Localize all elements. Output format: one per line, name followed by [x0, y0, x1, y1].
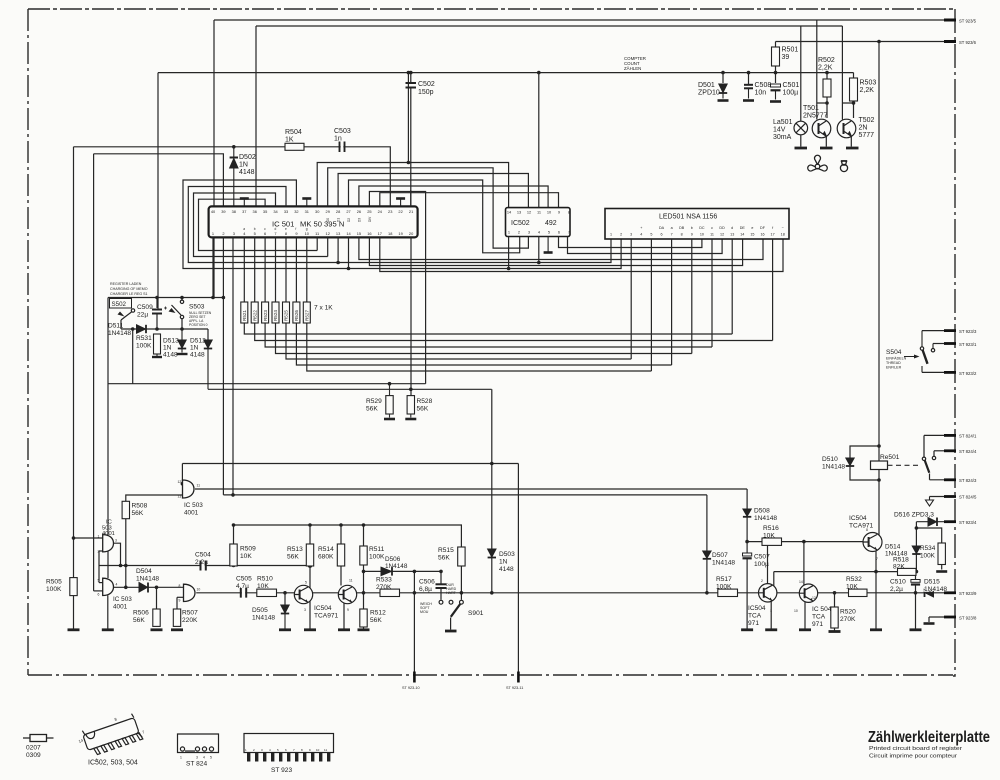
transistor T501 2N5777: [812, 119, 832, 148]
svg-text:31: 31: [305, 209, 309, 214]
svg-text:ST 923: ST 923: [271, 767, 292, 774]
svg-text:D3: D3: [358, 218, 362, 222]
svg-text:10K: 10K: [240, 553, 252, 560]
svg-text:2: 2: [253, 748, 255, 752]
svg-text:4001: 4001: [113, 604, 128, 611]
svg-text:14: 14: [799, 580, 803, 584]
wire ST824-5 line: [930, 496, 949, 498]
resistor R525: [283, 302, 290, 323]
svg-text:ST 923-10: ST 923-10: [402, 686, 420, 690]
connector tick ST923/6: [944, 40, 956, 43]
svg-text:4001: 4001: [102, 531, 115, 537]
node feedback split: [119, 564, 123, 568]
svg-text:6,8µ: 6,8µ: [419, 586, 432, 593]
svg-text:IC 503: IC 503: [113, 596, 132, 603]
wire pin11 stub: [316, 237, 318, 250]
svg-text:D501: D501: [698, 82, 715, 89]
wire LED p5 riser to rbank line7: [650, 239, 652, 371]
node gateA input1: [72, 536, 76, 540]
connector tick ST923-10: [413, 672, 416, 683]
svg-text:D506: D506: [385, 556, 401, 563]
svg-text:HART: HART: [446, 591, 457, 595]
transistor T4 IC504: [863, 533, 882, 552]
svg-text:9: 9: [691, 233, 693, 237]
wire S502 arm lower stub: [120, 320, 122, 329]
wire C507 bottom: [746, 558, 748, 628]
ground T4 drop: [870, 628, 882, 631]
svg-text:5: 5: [305, 581, 307, 585]
connector tick ST923/4: [944, 520, 956, 523]
wire T1 emitter: [309, 601, 311, 629]
node D514 R518: [915, 570, 919, 574]
resistor R511: [360, 546, 367, 565]
svg-text:ST 923/9: ST 923/9: [959, 591, 977, 596]
node x408 bus junction: [407, 71, 411, 75]
wire LED p7 riser to rbank line6: [671, 239, 673, 365]
capacitor C502: [406, 73, 417, 208]
svg-text:R511: R511: [369, 546, 385, 553]
wire loop pin33 to pin13 to IC502 p3: [188, 187, 611, 263]
svg-text:11: 11: [537, 210, 541, 215]
wire pin12 stub: [327, 237, 329, 256]
resistor bank R521-R527 7x1K: [244, 237, 772, 371]
border frame right: [953, 9, 955, 676]
svg-text:f: f: [295, 227, 296, 231]
svg-text:R501: R501: [782, 47, 799, 54]
node S901 main: [460, 591, 464, 595]
svg-text:1N4148: 1N4148: [712, 560, 735, 567]
op-amp IC502 492 box: [506, 208, 571, 237]
svg-text:100µ: 100µ: [754, 561, 769, 568]
svg-text:d: d: [731, 226, 733, 230]
gate IC503 A: [103, 535, 114, 552]
ground S901: [445, 630, 457, 633]
resistor R501: [772, 47, 780, 66]
resistor R534: [938, 543, 945, 565]
svg-text:12: 12: [527, 210, 531, 215]
node D511 line D513: [180, 327, 184, 331]
wire R508 bottom drop: [125, 519, 127, 588]
svg-text:TCA971: TCA971: [849, 523, 874, 530]
svg-text:37: 37: [242, 209, 246, 214]
svg-text:2,2µ: 2,2µ: [195, 559, 208, 566]
wire R525 path: [286, 237, 631, 359]
wire R514 stub: [340, 525, 342, 544]
svg-text:28: 28: [336, 209, 340, 214]
wire loop pin35 to pin11 to IC502 p1: [199, 199, 318, 250]
svg-text:R512: R512: [370, 610, 386, 617]
svg-text:22: 22: [398, 209, 402, 214]
wire IC502 p6 to LED p10: [559, 237, 702, 248]
svg-text:5: 5: [98, 579, 100, 583]
svg-text:e: e: [751, 226, 753, 230]
svg-text:R508: R508: [132, 503, 148, 510]
wire loop pin34 to pin12 to IC502 p2: [194, 193, 328, 257]
wire pin13 stub: [337, 237, 339, 262]
wire D511 line: [121, 328, 208, 330]
diode D513: [177, 329, 188, 354]
label gate pin numbers: [98, 480, 879, 613]
svg-text:5: 5: [210, 756, 212, 760]
wire ST923/5 rail: [214, 19, 948, 21]
wire D511 riser: [132, 329, 134, 384]
diode D510 and relay Re501: [850, 446, 879, 480]
SEC-TOPLINES: [723, 20, 879, 461]
wire R508 top to gateC: [126, 495, 183, 501]
svg-text:10: 10: [700, 233, 704, 237]
svg-text:17: 17: [771, 233, 775, 237]
svg-text:D513: D513: [163, 338, 179, 345]
wire pin2 down long: [222, 237, 224, 495]
svg-text:a: a: [243, 227, 245, 231]
svg-text:IC504: IC504: [849, 515, 867, 522]
svg-text:IC502, 503, 504: IC502, 503, 504: [88, 760, 138, 767]
svg-text:9: 9: [309, 748, 311, 752]
wire pin14 stub: [348, 237, 350, 268]
wire bundle pin29 to IC502 p3: [328, 168, 529, 248]
resistor R532: [849, 589, 868, 596]
svg-text:4148: 4148: [499, 566, 514, 573]
wire D508 to R516 node: [746, 517, 748, 553]
svg-text:2: 2: [761, 579, 763, 583]
wire R527 path: [307, 237, 652, 371]
wire ST824-1 line: [924, 434, 948, 436]
svg-text:2,2K: 2,2K: [860, 87, 875, 94]
svg-text:22µ: 22µ: [137, 312, 148, 319]
svg-text:1: 1: [245, 748, 247, 752]
svg-text:14: 14: [740, 233, 744, 237]
capacitor C510 electrolytic: [911, 580, 920, 585]
svg-text:R516: R516: [763, 525, 779, 532]
svg-text:4: 4: [269, 748, 271, 752]
svg-text:18: 18: [781, 233, 785, 237]
resistor R527: [303, 302, 310, 323]
wire ST824-4 line: [934, 450, 948, 452]
ground R512: [358, 628, 370, 631]
svg-text:6: 6: [285, 748, 287, 752]
svg-text:3: 3: [528, 230, 530, 235]
capacitor C505: [242, 588, 245, 598]
wire D505 drop: [284, 593, 286, 605]
svg-text:C503: C503: [334, 128, 351, 135]
svg-text:25: 25: [367, 209, 371, 214]
svg-text:5: 5: [254, 231, 256, 236]
svg-text:270K: 270K: [376, 584, 392, 591]
wire main line y593: [196, 592, 759, 594]
node rail2 relay junction: [877, 40, 881, 44]
zener D501 ZPD10: [718, 84, 729, 101]
svg-text:R525: R525: [284, 310, 289, 321]
wire R521 path: [244, 237, 732, 334]
ground T1: [304, 628, 316, 631]
wire R503 bottom jog: [842, 101, 853, 118]
resistor R515: [458, 547, 465, 566]
node pin14 junction: [347, 267, 351, 271]
svg-text:100K: 100K: [920, 553, 936, 560]
wire rail y525: [234, 525, 462, 547]
wire R516 line: [747, 541, 863, 543]
svg-text:D1: D1: [337, 218, 341, 222]
ground T5: [765, 628, 777, 631]
svg-text:DC: DC: [699, 226, 705, 230]
svg-text:11: 11: [197, 484, 201, 488]
svg-text:R515: R515: [438, 547, 454, 554]
resistor R526: [293, 302, 300, 323]
node R514 rail: [339, 523, 343, 527]
wire R501 to bus: [775, 66, 777, 83]
resistor R517: [718, 589, 738, 596]
svg-text:10n: 10n: [755, 90, 767, 97]
svg-text:33: 33: [284, 209, 288, 214]
svg-text:26: 26: [357, 209, 361, 214]
icon small bulb: [840, 161, 847, 172]
svg-text:S901: S901: [468, 610, 484, 617]
capacitor C507 electrolytic: [743, 553, 752, 558]
svg-text:32: 32: [294, 209, 298, 214]
wire gateA input2 tap: [99, 550, 103, 552]
wire T4 emitter: [875, 551, 877, 571]
wire R524 path: [276, 237, 692, 353]
capacitor C504: [202, 561, 205, 571]
node R534 bracket: [915, 526, 919, 530]
resistor R504: [285, 143, 304, 150]
svg-text:100K: 100K: [716, 584, 732, 591]
svg-text:56K: 56K: [438, 555, 450, 562]
svg-text:TCA971: TCA971: [314, 613, 339, 620]
svg-text:56K: 56K: [370, 617, 382, 624]
wire bundle pin27 to IC502 p2: [349, 180, 520, 253]
wire C509 stub: [156, 298, 158, 309]
svg-text:1: 1: [212, 231, 214, 236]
wire IC502 p1 stub: [508, 237, 510, 269]
wire R534 bracket: [916, 528, 941, 570]
wire C510 ground drop: [915, 593, 917, 629]
switch S502: [110, 299, 132, 309]
node D503 y463: [490, 462, 494, 466]
svg-text:1N4148: 1N4148: [385, 563, 408, 570]
node pin13 junction: [336, 261, 340, 265]
svg-text:0207: 0207: [26, 745, 41, 752]
node D507 main: [705, 591, 709, 595]
wire D506 line: [364, 570, 442, 572]
wire ST824-3 line: [930, 479, 949, 481]
wire loop pin32 to pin14 to IC502 p4: [183, 180, 621, 269]
ground stub pin31: [302, 199, 311, 207]
svg-text:R502: R502: [818, 57, 835, 64]
svg-text:R505: R505: [46, 579, 62, 586]
ground D505: [279, 628, 291, 631]
svg-text:C507: C507: [754, 554, 770, 561]
svg-text:R507: R507: [182, 610, 198, 617]
wire x72 down to R505: [73, 147, 75, 578]
svg-text:100K: 100K: [46, 586, 62, 593]
svg-text:4,7µ: 4,7µ: [236, 583, 249, 590]
svg-text:ST 923/2: ST 923/2: [959, 371, 977, 376]
connector tick ST824/4: [944, 449, 956, 452]
connector tick ST824/5: [944, 495, 956, 498]
wire R513 stub: [309, 525, 311, 544]
ground R507: [171, 628, 183, 631]
resistor R520: [831, 607, 838, 628]
resistor R524: [272, 302, 279, 323]
svg-text:DIV: DIV: [368, 216, 372, 222]
diode D504: [139, 583, 148, 593]
svg-text:b: b: [691, 226, 693, 230]
svg-text:D502: D502: [239, 154, 256, 161]
diode D508: [743, 509, 751, 517]
svg-text:DD: DD: [719, 226, 725, 230]
svg-text:15: 15: [750, 233, 754, 237]
svg-text:1N: 1N: [163, 345, 172, 352]
node R513 rail: [308, 523, 312, 527]
resistor R508: [122, 501, 129, 518]
svg-text:R524: R524: [273, 310, 278, 321]
wire pin20 down to R528: [410, 237, 412, 395]
wire C509 to line: [156, 315, 158, 330]
svg-text:13: 13: [178, 495, 182, 499]
svg-text:30mA: 30mA: [773, 134, 792, 141]
gate IC503 B: [103, 578, 114, 595]
switch S504: [904, 331, 935, 373]
node R502 bottom: [825, 101, 829, 105]
svg-text:150p: 150p: [418, 89, 434, 96]
ground R534: [936, 570, 947, 573]
svg-text:D515: D515: [924, 579, 940, 586]
wire R509 vertical: [233, 525, 235, 544]
diode D511: [137, 325, 147, 333]
switch S503: [169, 298, 184, 330]
svg-text:R504: R504: [285, 129, 302, 136]
wire IC502 p4 stub: [538, 237, 540, 263]
IC package drawing IC502 503 504: [75, 709, 149, 765]
wire ST923-2 line: [922, 371, 948, 373]
wire line y495: [223, 494, 707, 496]
wire R528 line: [208, 388, 492, 390]
diode D506: [381, 567, 392, 575]
svg-text:Re501: Re501: [880, 454, 900, 461]
svg-text:6: 6: [264, 231, 266, 236]
svg-text:100K: 100K: [369, 554, 385, 561]
svg-text:10: 10: [197, 588, 201, 592]
wire bundle pin24 to IC502 p9: [380, 193, 559, 208]
svg-text:THREAD: THREAD: [886, 361, 901, 365]
svg-text:EINFÄDELN: EINFÄDELN: [886, 357, 907, 361]
node IC502 p1 junction: [507, 267, 511, 271]
node R501 C501 bus: [774, 71, 778, 75]
svg-text:1: 1: [508, 230, 510, 235]
ground C510: [910, 628, 922, 631]
svg-text:ST 923/1: ST 923/1: [959, 342, 977, 347]
svg-text:ST 923/8: ST 923/8: [959, 615, 977, 620]
diode D514: [912, 546, 920, 554]
svg-text:56K: 56K: [287, 554, 299, 561]
svg-text:C502: C502: [418, 81, 435, 88]
svg-text:10K: 10K: [257, 583, 269, 590]
transistor T2 IC504: [338, 585, 356, 603]
svg-text:13: 13: [730, 233, 734, 237]
wire pin16 to LED p14: [369, 237, 742, 265]
svg-text:1N4148: 1N4148: [754, 515, 777, 522]
ground stub pin22: [396, 199, 405, 207]
ground R505: [68, 628, 80, 631]
svg-text:TCA: TCA: [748, 613, 762, 620]
node C508 bus: [747, 71, 751, 75]
wire C510 riser: [915, 572, 917, 593]
node D503 main: [490, 591, 494, 595]
wire D507 drop: [706, 495, 708, 551]
resistor R516: [762, 538, 782, 545]
svg-text:9: 9: [347, 608, 349, 612]
wire vertical x214 to S502 bus: [213, 20, 215, 298]
wire gateB input2 feed: [94, 590, 103, 592]
connector tick ST923/5: [944, 19, 956, 22]
svg-text:56K: 56K: [417, 406, 429, 413]
svg-text:D503: D503: [499, 551, 515, 558]
svg-text:IC 503: IC 503: [184, 502, 203, 509]
wire R506 stub: [156, 587, 158, 609]
svg-text:100µ: 100µ: [783, 90, 799, 97]
svg-text:c: c: [711, 226, 713, 230]
ground T6: [799, 628, 811, 631]
svg-text:Printed circuit board of r: Printed circuit board of register: [869, 746, 962, 752]
wire bundle pin26 to IC502 p10: [359, 186, 548, 208]
wire R504 line: [74, 147, 391, 208]
wire gateB input1 tap: [99, 582, 103, 584]
resistor R509: [230, 544, 237, 566]
svg-text:R534: R534: [920, 545, 936, 552]
wire S901 stub: [460, 593, 462, 600]
diode D515: [925, 589, 934, 597]
svg-text:4: 4: [116, 583, 118, 587]
wire ST923-1 line: [933, 343, 948, 345]
svg-text:S502: S502: [112, 301, 127, 308]
wire T1 collector: [309, 566, 311, 589]
diode D502: [230, 147, 238, 208]
svg-text:1: 1: [770, 609, 772, 613]
svg-text:5: 5: [277, 748, 279, 752]
svg-text:492: 492: [545, 220, 557, 227]
svg-text:3: 3: [196, 756, 198, 760]
svg-text:CHARGER LE REG S1: CHARGER LE REG S1: [110, 292, 148, 296]
svg-text:Zählwerkleiterplatte: Zählwerkleiterplatte: [868, 729, 990, 746]
wire R515 bottom: [460, 566, 462, 593]
wire R526 path: [296, 237, 671, 365]
resistor R503: [850, 78, 858, 101]
svg-text:7: 7: [876, 557, 878, 561]
svg-text:C505: C505: [236, 576, 252, 583]
node bus S503: [180, 296, 184, 300]
node bus pin2: [222, 296, 226, 300]
gate IC503 D: [184, 584, 196, 601]
svg-text:ST 824/4: ST 824/4: [959, 449, 977, 454]
wire LED p17 riser to rbank line2: [772, 239, 774, 341]
svg-text:D511: D511: [108, 323, 124, 330]
svg-text:T501: T501: [803, 105, 819, 112]
svg-text:3: 3: [115, 539, 117, 543]
node R508 feedback: [124, 564, 128, 568]
svg-text:R529: R529: [366, 398, 382, 405]
wire LED p9 riser to rbank line4: [691, 239, 693, 354]
svg-text:100K: 100K: [136, 343, 152, 350]
node D511 riser: [131, 327, 135, 331]
wire upper rail 2: [256, 25, 842, 27]
wire R511 vertical chain: [363, 525, 365, 629]
svg-text:ZÄHLEN: ZÄHLEN: [624, 66, 641, 71]
svg-text:2: 2: [620, 233, 622, 237]
svg-text:1N: 1N: [190, 345, 199, 352]
wire gateB bottom ground: [107, 596, 109, 629]
wire S502 bus: [108, 297, 223, 299]
